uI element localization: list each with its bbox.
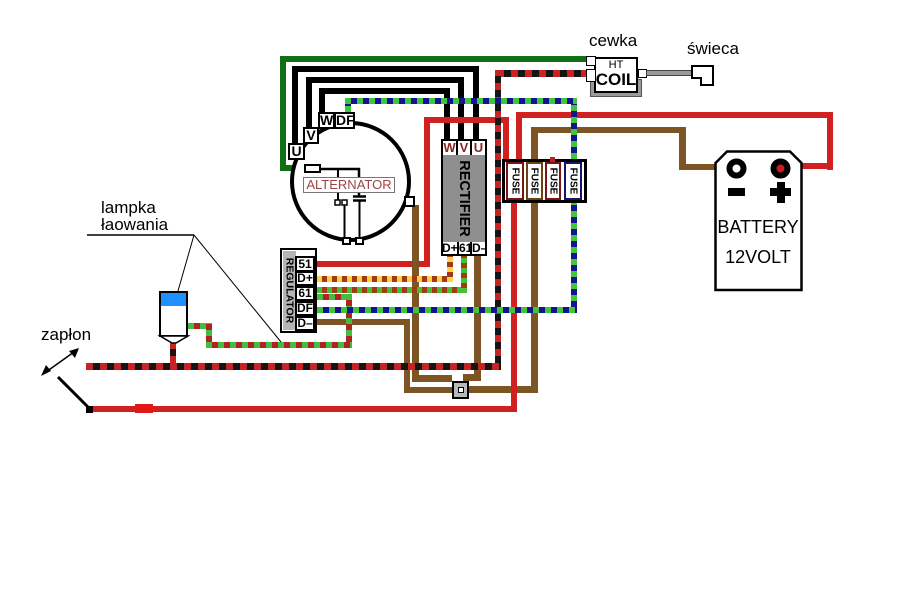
wire: green stub into alternator terminal xyxy=(280,165,305,171)
wire: brown horizontal to battery minus xyxy=(531,127,686,133)
wire: brown fuse 2 upper vertical xyxy=(531,127,538,159)
wire: green/brown vertical to rectifier 61 xyxy=(461,256,467,293)
wire: black phase W right vertical to rectifier W xyxy=(444,88,450,140)
charge lamp funnel xyxy=(157,335,191,345)
wire: red fuse 1 bottom vertical to ignition xyxy=(511,203,517,412)
battery label xyxy=(716,217,800,238)
wire: red/black long vertical xyxy=(495,70,501,370)
terminal box U xyxy=(288,143,305,160)
wire: yellow/brown regulator D+ horizontal xyxy=(317,276,453,282)
wire: brown regulator D- elbow to junction xyxy=(404,387,452,393)
fuse F1 label xyxy=(507,163,523,199)
label zapłon xyxy=(41,325,91,345)
wire: brown regulator D- vertical xyxy=(404,319,410,393)
HT coil terminal 1 xyxy=(586,56,596,66)
svg-text:FUSE: FUSE xyxy=(567,168,578,195)
regulator cell D+ xyxy=(295,271,315,286)
fuse F3 label xyxy=(545,163,561,199)
HT coil box xyxy=(594,57,638,93)
wire: red vertical down to battery plus xyxy=(827,112,833,170)
fuse F3 top stub xyxy=(550,157,555,162)
terminal box V xyxy=(303,127,319,144)
rectifier box xyxy=(441,139,487,256)
wire: brown alternator frame elbow to junction xyxy=(412,375,452,382)
wire: green/brown regulator 61 horizontal xyxy=(317,287,467,293)
wire: black phase W horizontal xyxy=(319,88,450,94)
wire: red horizontal fuse 1 to battery corner xyxy=(516,112,833,118)
wire: red drop from battery line into fuse 1 xyxy=(516,112,522,160)
wire: green ignition-source horizontal to HT coil xyxy=(280,56,587,62)
svg-text:REGULATOR: REGULATOR xyxy=(284,258,296,324)
wire: green/red lamp wire from regulator 61 xyxy=(317,294,352,300)
wire: green/red stub into lamp xyxy=(188,323,206,329)
wire: red/black horizontal to ignition switch xyxy=(86,363,501,370)
svg-text:RECTIFIER: RECTIFIER xyxy=(456,160,472,237)
wire: black phase U right vertical to rectifier U xyxy=(473,66,479,140)
wire: brown regulator D- horizontal xyxy=(317,319,410,325)
rectifier top terminal U xyxy=(472,140,485,155)
spark plug lead xyxy=(646,70,692,76)
wire: red ignition bottom horizontal xyxy=(92,406,517,412)
charge lamp body xyxy=(159,291,188,337)
battery plus sign horizontal xyxy=(770,188,791,196)
wire: black phase V left vertical to V box xyxy=(306,77,312,129)
wire: black phase U horizontal xyxy=(292,66,479,72)
wire: green vertical left of alternator xyxy=(280,56,286,171)
alternator bottom terminal 1 xyxy=(342,237,351,245)
wire: red/black horizontal into HT coil xyxy=(497,70,587,77)
wire: red stub into battery plus terminal xyxy=(789,163,833,169)
regulator box xyxy=(280,248,317,333)
wire: brown vertical at battery minus xyxy=(679,127,686,170)
rectifier bottom terminal D- xyxy=(472,242,486,255)
wire: navy/green vertical below fuse 4 xyxy=(571,203,577,313)
regulator rotated name xyxy=(280,248,300,333)
battery minus terminal ring xyxy=(726,158,748,180)
fuse F4 label xyxy=(565,163,581,199)
svg-text:FUSE: FUSE xyxy=(529,168,540,195)
alternator bottom terminal 2 xyxy=(355,237,364,245)
wire: brown rectifier D- vertical xyxy=(474,256,481,381)
wire: navy/green vertical into fuse 4 xyxy=(571,104,577,159)
alternator name label xyxy=(303,177,395,193)
terminal box W xyxy=(318,112,335,129)
HT coil shadow xyxy=(590,79,642,97)
junction inner bolt xyxy=(458,387,464,393)
wire: black phase W left vertical to W box xyxy=(319,88,325,113)
alternator right terminal xyxy=(404,196,415,207)
wire: yellow/brown vertical to rectifier D+ xyxy=(447,256,453,282)
wire: green/red lamp wire vertical xyxy=(346,294,352,348)
ignition switch arrow xyxy=(38,344,83,379)
alternator body circle xyxy=(288,119,414,245)
wire: red thicker blob on ignition wire xyxy=(135,404,153,413)
rectifier top terminal V xyxy=(458,140,472,155)
wire: green/red lamp wire lower horizontal xyxy=(206,342,352,348)
fuse F1 xyxy=(506,162,524,200)
rectifier rotated name xyxy=(450,150,480,247)
wire: green/red lamp wire riser xyxy=(206,323,212,348)
alternator left terminal xyxy=(304,164,321,173)
wire: black phase V right vertical to rectifier V xyxy=(458,77,464,140)
regulator grey strip xyxy=(283,251,296,330)
wire: brown elbow junction to fuse 2 line xyxy=(469,386,538,393)
wire: red drop into fuse 1 top-left xyxy=(503,117,509,160)
regulator cell 61 xyxy=(295,286,315,301)
regulator cell DF xyxy=(295,301,315,316)
svg-text:FUSE: FUSE xyxy=(547,168,558,195)
regulator cell D- xyxy=(295,316,315,331)
label lampka ładowania xyxy=(101,199,168,233)
callout underline for lamp label xyxy=(85,230,285,350)
HT coil terminal 2 xyxy=(586,69,596,82)
wire: red/black stub under lamp xyxy=(170,342,176,363)
fuse F2 xyxy=(526,162,543,200)
battery outline xyxy=(714,150,804,292)
wire: red horizontal above rectifier to fuse 1 xyxy=(424,117,508,123)
HT coil COIL text xyxy=(594,70,638,90)
HT coil HT text xyxy=(594,59,638,71)
rectifier grey body xyxy=(443,155,485,242)
wire: black phase V horizontal xyxy=(306,77,464,83)
rectifier bottom terminal D+ xyxy=(442,242,459,255)
label cewka xyxy=(589,31,637,51)
battery plus terminal ring xyxy=(770,158,792,180)
charge lamp blue section xyxy=(161,293,186,306)
ignition switch contact xyxy=(86,406,93,413)
rectifier top terminal W xyxy=(443,140,458,155)
HT coil output terminal xyxy=(638,69,647,78)
wire: brown rectifier D- elbow into junction xyxy=(463,374,481,381)
wire: brown stub into battery minus terminal xyxy=(679,164,729,170)
terminal box DF xyxy=(334,112,355,129)
wire: black phase U left vertical to U box xyxy=(292,66,298,144)
battery voltage label xyxy=(716,247,800,268)
alternator internal wiring xyxy=(288,119,418,249)
wire: brown alternator frame vertical xyxy=(412,205,419,380)
rectifier bottom terminal 61 xyxy=(459,242,472,255)
fuse F3 xyxy=(545,162,561,200)
svg-text:FUSE: FUSE xyxy=(509,168,520,195)
wire: red regulator 51 horizontal xyxy=(317,261,430,267)
regulator cell 51 xyxy=(295,256,315,272)
fuse F4 xyxy=(564,162,582,200)
fuse F2 label xyxy=(526,163,542,199)
wire: navy/green DF riser above DF box xyxy=(345,98,351,112)
wire: navy/green DF lower horizontal to regulator xyxy=(317,307,577,313)
junction connector plate xyxy=(452,381,469,399)
spark plug xyxy=(689,63,717,88)
ignition switch lever xyxy=(52,372,97,414)
wire: brown fuse 2 lower vertical xyxy=(531,203,538,393)
battery minus sign xyxy=(728,188,745,196)
wire: red vertical left of rectifier xyxy=(424,117,430,267)
label świeca xyxy=(687,39,739,59)
wire: navy/green DF top horizontal xyxy=(345,98,577,104)
fuse block outer box xyxy=(502,159,587,203)
battery plus sign vertical xyxy=(777,182,785,203)
